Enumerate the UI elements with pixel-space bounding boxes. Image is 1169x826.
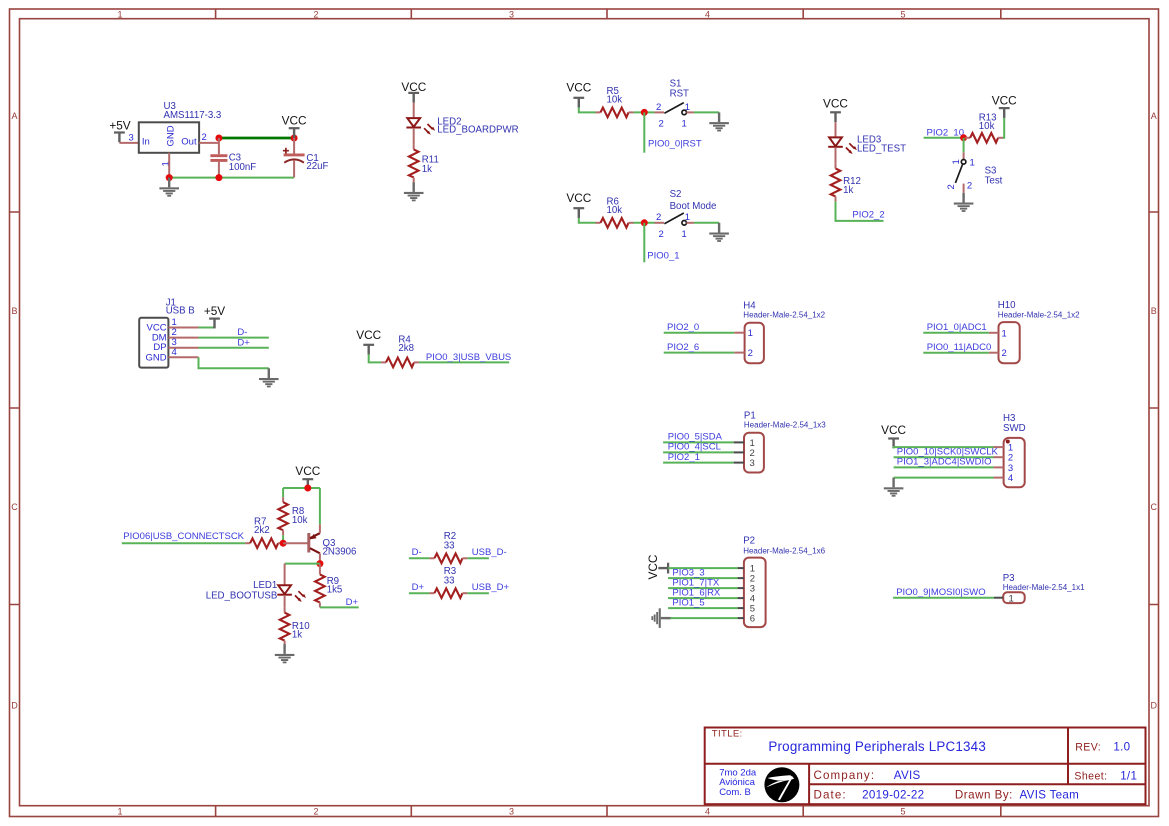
svg-text:PIO2_2: PIO2_2 xyxy=(852,209,884,220)
wire VCC down to R4 xyxy=(369,354,381,362)
svg-text:Com. B: Com. B xyxy=(719,787,751,798)
frame row labels left xyxy=(11,111,18,711)
wire PIO2_0 xyxy=(664,332,735,334)
svg-text:3: 3 xyxy=(750,458,755,469)
svg-text:Programming Peripherals LPC134: Programming Peripherals LPC1343 xyxy=(768,739,986,754)
H3 pin 3 stub xyxy=(994,466,1004,468)
wire PIO1_5 xyxy=(668,607,738,609)
svg-text:D: D xyxy=(11,700,18,710)
wire H3 gnd xyxy=(894,477,994,479)
switch S3 vertical xyxy=(955,152,965,192)
svg-text:1k: 1k xyxy=(422,164,432,175)
svg-text:Out: Out xyxy=(181,137,197,148)
svg-text:Test: Test xyxy=(985,176,1003,187)
wire PIO0_5|SDA xyxy=(663,441,734,443)
svg-text:1: 1 xyxy=(970,157,975,168)
wire D- xyxy=(199,337,269,339)
ground under R10 xyxy=(275,644,295,663)
wire LED1 to R10 xyxy=(284,595,286,608)
resistor R10 xyxy=(280,608,290,646)
svg-text:VCC: VCC xyxy=(282,114,307,128)
J1 pin 1 stub xyxy=(168,327,198,329)
svg-text:VCC: VCC xyxy=(566,80,591,94)
svg-text:PIO0_11|ADC0: PIO0_11|ADC0 xyxy=(927,342,992,353)
svg-text:PIO0_3|USB_VBUS: PIO0_3|USB_VBUS xyxy=(426,352,511,363)
wire H3 vcc xyxy=(894,447,994,448)
resistor R8 xyxy=(278,497,288,535)
wire PIO1_7|TX xyxy=(668,587,738,589)
wire VCC to LED3 xyxy=(835,122,837,137)
VCC power symbol at R4 xyxy=(356,328,381,354)
frame row ticks left xyxy=(10,212,20,605)
svg-text:Company:: Company: xyxy=(814,769,876,782)
svg-text:PIO0_9|MOSI0|SWO: PIO0_9|MOSI0|SWO xyxy=(896,587,985,598)
svg-text:1: 1 xyxy=(685,212,690,223)
P2 pin 2 stub xyxy=(738,577,744,579)
frame column ticks top xyxy=(216,9,1001,19)
frame column labels top xyxy=(117,9,905,19)
svg-text:LED_BOOTUSB: LED_BOOTUSB xyxy=(206,590,278,601)
wire R9 to D+ xyxy=(320,606,359,608)
junction at U3 gnd xyxy=(166,174,173,181)
frame row labels right xyxy=(1151,111,1158,711)
svg-text:GND: GND xyxy=(165,125,176,146)
wire S2 to ground xyxy=(694,222,719,224)
svg-text:1: 1 xyxy=(1002,328,1007,339)
wire D- to R2 xyxy=(409,557,430,559)
H10 pin 1 stub xyxy=(989,332,999,334)
VCC power symbol at R5 xyxy=(566,80,591,107)
resistor R3 xyxy=(429,588,467,598)
svg-text:2: 2 xyxy=(1002,348,1007,359)
svg-text:VCC: VCC xyxy=(823,97,848,111)
svg-text:USB_D-: USB_D- xyxy=(472,547,507,558)
svg-text:2: 2 xyxy=(967,181,972,192)
title block outline xyxy=(705,728,1146,805)
svg-text:VCC: VCC xyxy=(356,328,381,342)
wire VCC down to R5 row xyxy=(579,107,596,112)
resistor R2 xyxy=(429,554,467,564)
svg-text:VCC: VCC xyxy=(881,423,906,437)
svg-text:2k8: 2k8 xyxy=(398,343,414,354)
svg-text:+5V: +5V xyxy=(204,304,225,318)
svg-text:PIO1_5: PIO1_5 xyxy=(672,597,704,608)
svg-text:2019-02-22: 2019-02-22 xyxy=(862,788,924,801)
junction S3 node xyxy=(960,134,967,141)
transistor Q2 base wire xyxy=(283,542,308,544)
svg-text:10k: 10k xyxy=(607,205,623,216)
VCC power symbol at C1 xyxy=(282,114,307,139)
ground at H3 xyxy=(884,478,904,497)
ground symbol under U3 xyxy=(159,178,179,197)
P1 pin 3 stub xyxy=(734,462,744,464)
op-amp U3 body xyxy=(139,122,199,153)
junction at C1 top xyxy=(291,135,298,142)
wire junction down to S3 xyxy=(963,138,965,153)
svg-text:100nF: 100nF xyxy=(229,162,257,173)
wire PIO2_10 xyxy=(924,137,964,139)
svg-text:H10: H10 xyxy=(998,300,1016,311)
svg-text:VCC: VCC xyxy=(295,464,320,478)
svg-text:33: 33 xyxy=(444,541,455,552)
svg-text:LED_BOARDPWR: LED_BOARDPWR xyxy=(437,125,518,136)
svg-text:Header-Male-2.54_1x3: Header-Male-2.54_1x3 xyxy=(744,421,826,430)
wire GND net bottom xyxy=(169,177,294,179)
svg-text:1: 1 xyxy=(1009,593,1014,604)
resistor R11 xyxy=(409,144,419,182)
resistor R9 xyxy=(315,564,325,608)
+5V power symbol at U3 xyxy=(109,118,130,142)
wire rail down to Q3 emitter xyxy=(319,488,321,524)
H3 pin 4 stub xyxy=(994,477,1004,479)
svg-text:PIO06|USB_CONNECTSCK: PIO06|USB_CONNECTSCK xyxy=(123,531,244,542)
junction VCC rail xyxy=(304,485,311,492)
VCC power symbol at Q3 xyxy=(295,464,320,489)
P1 pin 1 stub xyxy=(734,441,744,443)
svg-text:10k: 10k xyxy=(292,515,308,526)
ground at J1 xyxy=(259,368,279,387)
wire R5 to junction xyxy=(634,111,655,113)
VCC power symbol at R6 xyxy=(566,191,591,218)
svg-text:2: 2 xyxy=(313,806,318,816)
resistor R13 xyxy=(965,133,1003,143)
wire J1 gnd xyxy=(199,357,269,368)
resistor R5 xyxy=(596,108,634,118)
svg-text:1k: 1k xyxy=(843,185,853,196)
P2 pin 6 stub xyxy=(738,617,744,619)
switch S1 xyxy=(655,103,694,115)
svg-text:1: 1 xyxy=(685,102,690,113)
+5V power symbol at J1 xyxy=(204,304,225,329)
svg-text:1: 1 xyxy=(748,328,753,339)
wire S1 to ground xyxy=(694,111,719,113)
LED1 diode xyxy=(277,585,306,602)
VCC power symbol at LED2 xyxy=(401,80,426,103)
VCC power symbol rotated at P2 xyxy=(646,554,668,579)
svg-text:PIO2_1: PIO2_1 xyxy=(668,452,700,463)
svg-text:2N3906: 2N3906 xyxy=(323,546,357,557)
wire PIO0_4|SCL xyxy=(663,451,734,453)
title block logo cell divider xyxy=(808,764,810,804)
wire P2 vcc xyxy=(668,567,738,569)
svg-text:PIO1_3|ADC4|SWDIO: PIO1_3|ADC4|SWDIO xyxy=(897,457,992,468)
wire P2 gnd xyxy=(665,617,738,619)
svg-text:Drawn By:: Drawn By: xyxy=(955,788,1013,801)
VCC power symbol at R13 xyxy=(992,93,1017,118)
svg-text:VCC: VCC xyxy=(646,554,660,579)
logo contrail xyxy=(778,776,793,800)
svg-text:RST: RST xyxy=(670,89,689,100)
wire J1 pin1 to +5V xyxy=(199,327,215,329)
svg-text:4: 4 xyxy=(172,347,177,358)
H4 pin 2 stub xyxy=(734,352,744,354)
svg-text:S2: S2 xyxy=(670,189,682,200)
H3 pin1 marker dot xyxy=(1006,440,1010,444)
svg-text:C: C xyxy=(11,502,18,512)
svg-text:6: 6 xyxy=(750,614,755,625)
wire R8 to base node xyxy=(282,535,284,543)
pin 1 wire U3.GND xyxy=(168,153,170,178)
bold VCC wire U3.Out to C1 xyxy=(219,137,294,140)
header P2 body xyxy=(744,558,766,628)
ground under R11 xyxy=(404,182,424,201)
header P3 body xyxy=(1003,592,1024,603)
wire VCC down to R6 row xyxy=(579,218,596,223)
resistor R4 xyxy=(381,358,419,368)
VCC power symbol at LED3 xyxy=(823,97,848,123)
wire PIO0_11|ADC0 xyxy=(923,352,989,354)
svg-text:AVIS: AVIS xyxy=(894,769,921,782)
svg-text:B: B xyxy=(11,306,17,316)
wire PIO0_0 down xyxy=(643,112,645,152)
svg-text:PIO2_0: PIO2_0 xyxy=(667,322,699,333)
svg-text:1: 1 xyxy=(682,119,687,130)
wire down to LED1 xyxy=(284,564,286,586)
ground under S3 xyxy=(954,193,974,212)
svg-text:Header-Male-2.54_1x2: Header-Male-2.54_1x2 xyxy=(743,311,825,320)
svg-text:Header-Male-2.54_1x2: Header-Male-2.54_1x2 xyxy=(998,311,1080,320)
svg-text:1: 1 xyxy=(117,806,122,816)
wire PIO1_0|ADC1 xyxy=(923,332,989,334)
logo circle xyxy=(764,767,799,802)
wire rail down to R8 xyxy=(282,488,284,497)
svg-text:2: 2 xyxy=(748,348,753,359)
frame column ticks bottom xyxy=(216,806,1001,817)
J1 pin 2 stub xyxy=(168,337,198,339)
H3 pin 2 stub xyxy=(994,456,1004,458)
wire PIO1_6|RX xyxy=(668,597,738,599)
title block row divider 2 xyxy=(809,783,1145,785)
svg-text:4: 4 xyxy=(705,9,710,19)
junction S2 node xyxy=(641,219,648,226)
svg-text:2: 2 xyxy=(656,212,661,223)
wire PIO2_1 xyxy=(663,462,734,464)
switch S2 xyxy=(655,213,694,225)
svg-text:USB_D+: USB_D+ xyxy=(472,582,510,593)
ground rotated at P2 xyxy=(651,608,670,628)
P2 pin 5 stub xyxy=(738,607,744,609)
ground at S2 xyxy=(709,223,729,242)
wire PIO0_9 xyxy=(893,597,994,599)
svg-text:22uF: 22uF xyxy=(306,161,328,172)
svg-text:A: A xyxy=(11,111,17,121)
wire R3 to USB_D+ xyxy=(467,592,489,594)
wire D+ xyxy=(199,347,269,349)
header H3 body xyxy=(1004,438,1025,487)
svg-text:33: 33 xyxy=(444,576,455,587)
svg-text:In: In xyxy=(142,137,150,148)
svg-text:10k: 10k xyxy=(607,95,623,106)
wire PIO0_3 xyxy=(419,361,509,363)
svg-text:1k5: 1k5 xyxy=(327,585,343,596)
P3 pin 1 stub xyxy=(994,597,1003,599)
svg-text:1/1: 1/1 xyxy=(1120,769,1137,782)
svg-text:Sheet:: Sheet: xyxy=(1074,770,1107,782)
junction at C3 bottom xyxy=(215,174,222,181)
svg-text:PIO0_0|RST: PIO0_0|RST xyxy=(648,138,702,149)
header H10 body xyxy=(999,322,1020,363)
svg-text:1: 1 xyxy=(682,229,687,240)
J1 pin 3 stub xyxy=(168,347,198,349)
svg-text:4: 4 xyxy=(705,806,710,816)
LED3 diode xyxy=(828,137,857,154)
resistor R6 xyxy=(596,218,634,228)
svg-text:Boot Mode: Boot Mode xyxy=(670,201,717,212)
svg-text:PIO0_1: PIO0_1 xyxy=(647,251,679,262)
J1 pin 4 stub xyxy=(168,356,198,358)
VCC power symbol at H3 xyxy=(881,423,906,448)
resistor R7 xyxy=(245,538,283,548)
svg-text:Date:: Date: xyxy=(814,788,847,801)
title block row divider 1 xyxy=(705,763,1146,765)
wire R12 to PIO2_2 xyxy=(836,201,884,221)
capacitor C1 polarized xyxy=(283,138,305,177)
svg-text:VCC: VCC xyxy=(992,93,1017,107)
svg-text:3: 3 xyxy=(509,9,514,19)
H3 pin 1 stub xyxy=(994,446,1004,448)
svg-text:AVIS Team: AVIS Team xyxy=(1020,788,1080,801)
junction collector node xyxy=(316,560,323,567)
junction at C3 top xyxy=(215,135,222,142)
wire LED2 to R11 xyxy=(413,128,415,144)
svg-text:D-: D- xyxy=(412,547,422,558)
svg-text:D+: D+ xyxy=(412,582,425,593)
junction base node xyxy=(280,540,287,547)
P2 pin 1 stub xyxy=(738,567,744,569)
svg-text:TITLE:: TITLE: xyxy=(712,728,743,739)
transistor Q3 xyxy=(309,524,320,560)
svg-text:B: B xyxy=(1151,306,1157,316)
svg-text:2: 2 xyxy=(659,119,664,130)
svg-text:PIO2_6: PIO2_6 xyxy=(667,342,699,353)
H10 pin 2 stub xyxy=(989,352,999,354)
wire SWCLK xyxy=(894,456,994,458)
logo airplane swoosh xyxy=(768,775,795,781)
svg-text:Header-Male-2.54_1x1: Header-Male-2.54_1x1 xyxy=(1003,583,1085,592)
svg-text:GND: GND xyxy=(145,352,166,363)
svg-text:+5V: +5V xyxy=(109,118,130,132)
wire R2 to USB_D- xyxy=(467,557,489,559)
header P1 body xyxy=(744,433,764,473)
svg-text:2k2: 2k2 xyxy=(254,525,270,536)
junction S1 node xyxy=(641,109,648,116)
svg-text:2: 2 xyxy=(313,9,318,19)
wire R13 to VCC xyxy=(1003,118,1004,138)
svg-text:5: 5 xyxy=(900,9,905,19)
svg-text:2: 2 xyxy=(946,184,957,189)
svg-text:5: 5 xyxy=(900,806,905,816)
logo lower wing xyxy=(766,781,785,788)
svg-text:D+: D+ xyxy=(237,338,250,349)
svg-text:P2: P2 xyxy=(743,536,755,547)
P1 pin 2 stub xyxy=(734,451,744,453)
svg-text:2: 2 xyxy=(659,229,664,240)
svg-text:VCC: VCC xyxy=(566,191,591,205)
capacitor C3 xyxy=(210,138,227,178)
ground at S1 xyxy=(709,112,729,131)
svg-text:4: 4 xyxy=(1008,473,1013,484)
wire PIO3_3 xyxy=(668,577,738,579)
svg-text:1.0: 1.0 xyxy=(1113,740,1130,753)
svg-text:USB B: USB B xyxy=(166,306,195,317)
wire R6 to junction xyxy=(634,222,655,224)
svg-text:LED_TEST: LED_TEST xyxy=(857,144,906,155)
svg-text:D: D xyxy=(1151,700,1158,710)
svg-text:SWD: SWD xyxy=(1003,423,1026,434)
pin 3 wire U3.In xyxy=(119,142,138,144)
LED2 diode xyxy=(406,118,435,135)
resistor R12 xyxy=(831,163,841,201)
svg-text:PIO1_0|ADC1: PIO1_0|ADC1 xyxy=(927,322,987,333)
wire PIO2_6 xyxy=(664,352,735,354)
wire collector node xyxy=(319,560,321,563)
svg-text:A: A xyxy=(1151,111,1157,121)
svg-text:3: 3 xyxy=(129,132,134,143)
wire VCC rail Q3 xyxy=(283,487,320,489)
frame row ticks right xyxy=(1149,212,1159,605)
frame column labels bottom xyxy=(117,806,905,816)
connector J1 body xyxy=(139,318,168,368)
svg-text:3: 3 xyxy=(509,806,514,816)
pin 2 wire U3.Out xyxy=(199,142,219,144)
svg-text:C: C xyxy=(1151,502,1158,512)
svg-text:REV:: REV: xyxy=(1075,741,1101,753)
H4 pin 1 stub xyxy=(734,332,744,334)
svg-text:D+: D+ xyxy=(346,597,359,608)
svg-text:AMS1117-3.3: AMS1117-3.3 xyxy=(164,110,222,121)
wire SWDIO xyxy=(894,466,994,468)
wire VCC to LED2 xyxy=(413,103,415,118)
wire LED3 to R12 xyxy=(835,147,837,163)
svg-text:1: 1 xyxy=(951,159,962,164)
P2 pin 3 stub xyxy=(738,587,744,589)
wire PIO06 to R7 xyxy=(122,542,245,544)
title block rev cell divider xyxy=(1067,728,1069,785)
svg-text:2: 2 xyxy=(656,102,661,113)
wire collector to LED1 xyxy=(285,563,320,565)
svg-text:1k: 1k xyxy=(292,630,302,641)
svg-text:2: 2 xyxy=(202,132,207,143)
wire D+ to R3 xyxy=(409,592,430,594)
wire PIO0_1 down xyxy=(643,223,645,262)
svg-text:10k: 10k xyxy=(979,121,995,132)
svg-text:Header-Male-2.54_1x6: Header-Male-2.54_1x6 xyxy=(743,547,825,556)
P2 pin 4 stub xyxy=(738,597,744,599)
header H4 body xyxy=(745,323,764,364)
svg-text:1: 1 xyxy=(117,9,122,19)
